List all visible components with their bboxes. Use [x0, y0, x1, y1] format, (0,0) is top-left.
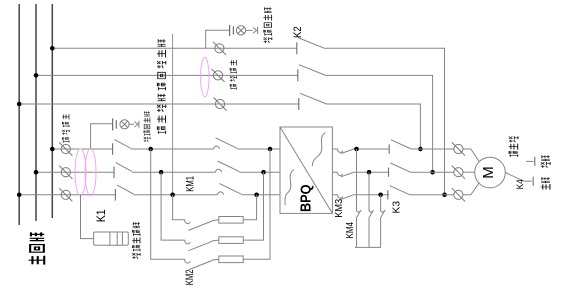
label 工频 [540, 177, 549, 189]
wire motor lead 3 [463, 183, 479, 195]
terminal X1-1 [59, 142, 72, 155]
svg-text:K4: K4 [515, 179, 526, 189]
lamp HL1 [120, 120, 129, 129]
terminal X3-1 [452, 142, 465, 155]
inverter BPQ diagonal [280, 127, 332, 213]
wire bianpin stub [526, 160, 534, 162]
wire row2 segment c [239, 171, 280, 173]
contactor KM3 pole 3 blade [341, 195, 353, 199]
junction row3 right [254, 193, 259, 198]
contactor KM4 pole 2 blade [369, 210, 374, 218]
contactor KM4 pole 3 blade [381, 210, 386, 218]
switch K3 pole 1 blade [391, 140, 411, 149]
wire KM2 tap left 1 [173, 195, 185, 220]
svg-text:M: M [481, 166, 497, 179]
breaker K1 pole 1 bar [112, 143, 114, 155]
junction row2-L2 [34, 170, 39, 175]
contactor KM1 pole 2 hook [216, 169, 222, 172]
junction row3-L3 [17, 193, 22, 198]
wire KM4 common bar [355, 246, 381, 248]
label 带电显示器 2 [263, 7, 271, 43]
terminal bar bianpin [534, 157, 536, 166]
switch K3 pole 3 bar [387, 190, 389, 199]
contactor KM1 pole 1 blade [216, 138, 238, 149]
contactor KM2 pole 2 hook [185, 240, 190, 244]
junction KM4 tap 3 [378, 193, 383, 198]
wire row3 segment b [133, 194, 217, 196]
junction bus3-L3 [17, 102, 22, 107]
wire lamp branch 2 riser [206, 30, 229, 48]
wire KM2 pole2 out [243, 172, 263, 240]
junction KM4 tap 2 [367, 170, 372, 175]
wire surge protector lead [81, 195, 94, 239]
wire KM4 drop 1 [356, 149, 358, 210]
terminal X2-1 [213, 42, 226, 55]
switch K2 pole 2 blade [299, 65, 326, 76]
terminal X2-2 [211, 69, 224, 82]
wire KM2 pole1 to resistor [212, 219, 219, 222]
wire main row 2 segment a [36, 171, 114, 173]
contactor KM3 pole 1 blade [341, 149, 353, 153]
wire KM4 drop 2 [368, 172, 370, 209]
terminal X3-3 [452, 188, 465, 201]
capacitor C1 plate right [115, 120, 117, 128]
junction row2 tap [159, 170, 164, 175]
label 转子侧 [509, 136, 518, 157]
terminal bar lamp2 [257, 27, 259, 34]
transformer T1 coil b [85, 149, 96, 196]
wire KM2 tap left 2 [161, 172, 185, 240]
contactor KM1 pole 3 blade [220, 184, 242, 195]
wire row2 after BPQ [332, 171, 337, 173]
junction K2 pole2 to row2 [430, 170, 435, 175]
wire KM4 drop 3 [380, 195, 382, 210]
wire KM2 pole3 out [243, 149, 270, 259]
wire lamp2 tail [245, 29, 252, 31]
wire supply line L3 [18, 4, 20, 225]
wire bus row 1 [52, 47, 296, 49]
breaker K1 pole 2 bar [113, 166, 115, 178]
label 接线端子 2 [230, 60, 237, 90]
switch K3 pole 1 bar [388, 144, 390, 153]
wire supply line L1 [51, 4, 53, 218]
terminal X1-3 [59, 188, 72, 201]
wire row1 segment b [131, 148, 214, 150]
contactor KM4 pole 2 hook [369, 210, 372, 212]
wire main row 1 segment a [52, 148, 112, 150]
wire motor lead 1 [463, 149, 479, 161]
label 带电显示器 1 [144, 111, 151, 142]
arrow lamp2 [253, 28, 257, 34]
resistor R3 [219, 256, 243, 263]
contactor KM2 pole 3 blade [189, 261, 213, 270]
wire row1 after BPQ [332, 148, 337, 150]
wire K2 pole2 run [326, 75, 433, 172]
switch K3 pole 3 blade [390, 186, 410, 195]
svg-text:KM3: KM3 [334, 198, 345, 217]
terminal X2-3 [213, 97, 226, 110]
capacitor C2 plate left [229, 25, 231, 36]
switch K3 pole 2 blade [390, 163, 410, 172]
junction row1 tap [148, 147, 153, 152]
terminal bar lamp1 [138, 121, 140, 128]
wire row3 after BPQ [332, 194, 337, 196]
contactor KM1 pole 3 hook [218, 192, 224, 195]
junction row1 right [268, 147, 273, 152]
terminal X1-2 [59, 166, 72, 179]
wire row2 segment b [132, 171, 216, 173]
wire lamp1 tail [129, 123, 134, 125]
junction row3 tap [170, 193, 175, 198]
svg-text:KM4: KM4 [345, 222, 356, 239]
wire supply line L2 [35, 4, 37, 221]
wire main row 3 segment a [19, 194, 115, 196]
inverter BPQ sine bottom [285, 170, 294, 206]
svg-text:K1: K1 [96, 209, 108, 222]
junction KM4 tap 1 [354, 147, 359, 152]
lamp HL2 [236, 26, 245, 35]
breaker K1 pole 3 bar [114, 189, 116, 201]
svg-text:K2: K2 [292, 26, 304, 38]
capacitor C2 plate right [232, 26, 234, 34]
wire row2 to motor [411, 171, 454, 173]
wire row1 KM3 to K3 [353, 148, 389, 150]
wire row1 segment c [237, 148, 280, 150]
switch K2 pole 1 bar [296, 42, 298, 54]
wire KM4 lower 3 [380, 218, 382, 248]
label 接线端子 1 [62, 114, 69, 142]
wire K2 pole1 run [325, 48, 445, 195]
contactor KM3 pole 1 hook [338, 149, 343, 152]
switch K2 pole 3 bar [298, 98, 300, 110]
contactor KM3 pole 3 hook [338, 195, 343, 198]
inverter BPQ sine top [312, 133, 325, 167]
wire row3 segment c [241, 194, 280, 196]
wire row3 KM3 to K3 [353, 194, 389, 196]
terminal bar gongpin [532, 177, 534, 186]
wire lamp branch 1 riser [91, 124, 112, 149]
switch K3 pole 2 bar [388, 168, 390, 177]
svg-text:K3: K3 [390, 201, 402, 214]
breaker K1 pole 2 blade [116, 163, 132, 172]
switch K2 pole 3 blade [300, 93, 327, 104]
wire KM2 tap left 3 [151, 149, 185, 259]
switch K2 pole 1 blade [298, 38, 325, 49]
label 过压保护器 [132, 222, 140, 259]
breaker K1 pole 3 blade [117, 185, 133, 194]
junction row1-L1 [50, 147, 55, 152]
contactor KM1 pole 1 hook [214, 146, 220, 149]
contactor KM1 pole 2 blade [218, 161, 240, 172]
label 变频 [541, 155, 550, 167]
contactor KM2 pole 3 hook [185, 259, 190, 263]
contactor KM3 pole 2 blade [341, 173, 353, 177]
wire KM4 lower 2 [368, 218, 370, 248]
wire KM2 pole2 to resistor [212, 239, 219, 242]
svg-text:KM1: KM1 [185, 176, 197, 192]
inverter BPQ box [280, 127, 332, 213]
wire K4 to gongpin [524, 180, 532, 182]
wire leader of commutator group [172, 34, 174, 195]
wire KM2 pole3 to resistor [212, 258, 219, 261]
terminal X3-2 [452, 166, 465, 179]
contactor KM4 pole 1 hook [356, 210, 359, 212]
surge protector divider 3 [121, 232, 123, 245]
wire K2 pole3 run [327, 104, 421, 149]
transformer T2 coil [201, 57, 209, 96]
contactor KM3 pole 2 hook [338, 172, 343, 175]
svg-text:BPQ: BPQ [298, 184, 315, 212]
label 主回路 [29, 232, 45, 264]
junction K2 pole1 to row3 [442, 193, 447, 198]
junction row2 right [261, 170, 266, 175]
breaker K1 pole 1 blade [114, 139, 130, 148]
contactor KM4 pole 3 hook [381, 210, 384, 212]
wire row1 to motor [411, 148, 454, 150]
surge protector divider 1 [109, 232, 111, 245]
wire row3 to motor [410, 194, 454, 196]
contactor KM4 pole 1 blade [357, 210, 362, 218]
junction bus2-L2 [34, 73, 39, 78]
junction K2 pole3 to row1 [418, 147, 423, 152]
contactor KM2 pole 2 blade [189, 241, 213, 250]
switch K2 pole 2 bar [297, 69, 299, 81]
resistor R2 [219, 237, 243, 244]
motor M circle [475, 157, 506, 188]
switch K4 blade [505, 173, 524, 182]
wire motor lead 2 [463, 171, 475, 173]
wire bus row 3 [19, 103, 299, 105]
contactor KM2 pole 1 blade [189, 221, 213, 230]
transformer T1 coil a [75, 149, 86, 196]
junction bus1-L1 [50, 46, 55, 51]
label 原工频操作的换相器 [157, 39, 166, 134]
surge protector divider 2 [116, 232, 118, 245]
wire row2 KM3 to K3 [353, 171, 389, 173]
wire bus row 2 [36, 74, 298, 76]
wire KM2 pole1 out [243, 195, 256, 220]
arrow lamp1 [134, 122, 138, 127]
surge protector box [94, 232, 129, 245]
svg-text:KM2: KM2 [184, 270, 196, 286]
contactor KM2 pole 1 hook [185, 220, 190, 224]
capacitor C1 plate left [112, 118, 114, 130]
wire KM4 lower 1 [356, 218, 358, 248]
resistor R1 [219, 217, 243, 224]
